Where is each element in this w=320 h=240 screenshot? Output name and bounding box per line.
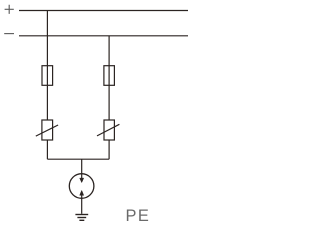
ground (earth symbol)	[75, 215, 88, 221]
varistor RV2	[97, 120, 119, 140]
fuse F1	[42, 66, 53, 86]
wire arrester to ground	[81, 195, 83, 213]
wire L+ bus	[19, 10, 188, 12]
wire bottom join	[47, 158, 109, 160]
wire L- bus	[19, 35, 188, 37]
fuse F2	[104, 66, 115, 86]
wire right branch upper	[108, 36, 110, 120]
node + (positive terminal label)	[5, 5, 14, 14]
wire left branch upper	[46, 11, 48, 121]
spark gap arrester G1	[69, 174, 94, 199]
wire center drop	[81, 159, 83, 178]
wire right branch lower	[108, 140, 110, 159]
varistor RV1	[36, 120, 58, 140]
node - (negative terminal label)	[4, 33, 14, 35]
svg-text:PE: PE	[126, 207, 151, 225]
wire left branch lower	[46, 140, 48, 159]
